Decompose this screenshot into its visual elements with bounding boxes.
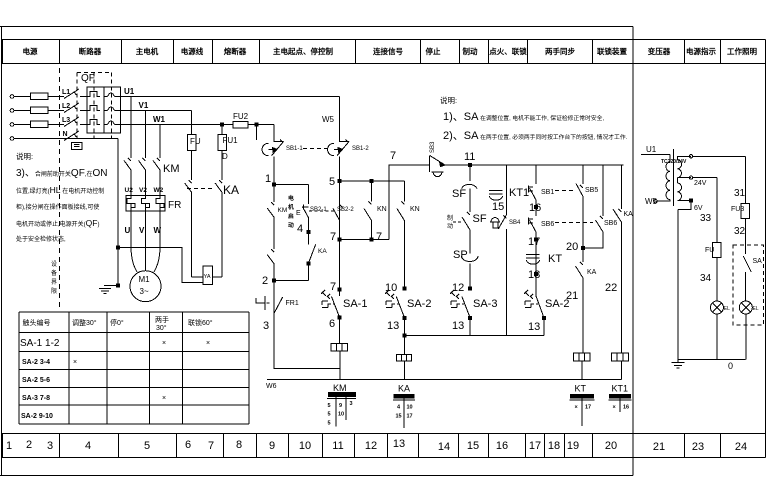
svg-text:断路器: 断路器 — [79, 46, 102, 56]
interlock contact SB2-2 — [333, 205, 343, 221]
svg-text:8: 8 — [236, 439, 242, 451]
transformer secondary top — [678, 156, 692, 177]
svg-text:2: 2 — [262, 275, 268, 287]
svg-text:SA-2: SA-2 — [407, 298, 431, 310]
wire FU to KA contact — [191, 150, 193, 180]
wire FU2 to junction — [248, 124, 274, 126]
wire branch drop — [469, 165, 471, 181]
svg-text:W5: W5 — [322, 115, 335, 124]
lamp HL1 indicator — [739, 301, 752, 314]
breaker QF magnetic element L2 — [108, 107, 121, 111]
emergency button SB1-1 mushroom — [262, 143, 276, 155]
node 7 line — [340, 239, 389, 241]
svg-text:10: 10 — [338, 412, 344, 418]
labels power section — [62, 73, 181, 296]
terminal L1 — [10, 95, 14, 99]
svg-text:L1: L1 — [62, 89, 70, 96]
svg-text:11: 11 — [464, 151, 475, 163]
node 5 junction — [338, 179, 341, 182]
svg-text:停0°: 停0° — [110, 318, 124, 327]
svg-text:SB1-1: SB1-1 — [286, 146, 303, 152]
svg-text:12: 12 — [365, 440, 377, 452]
bus W6 — [267, 379, 621, 381]
contact KM aux (self hold) — [267, 202, 274, 249]
svg-text:U: U — [125, 226, 131, 235]
svg-text:KA: KA — [398, 384, 410, 394]
dashed link SB1-SB5 — [555, 190, 576, 192]
svg-text:KA: KA — [223, 183, 239, 197]
svg-text:×: × — [162, 340, 166, 347]
svg-text:M1: M1 — [139, 275, 151, 284]
svg-text:12: 12 — [452, 282, 464, 294]
svg-text:V: V — [139, 226, 145, 235]
svg-text:处于安全检修状态,: 处于安全检修状态, — [16, 235, 66, 243]
wire node13 to KA coil — [403, 318, 405, 354]
border frame right (main) — [632, 27, 634, 476]
fuse FU (lamp) — [713, 243, 721, 258]
svg-text:主电起点、停控制: 主电起点、停控制 — [273, 46, 333, 56]
breaker QF blade L1 — [64, 89, 87, 99]
svg-text:W: W — [154, 226, 162, 235]
svg-text:SB6: SB6 — [604, 220, 617, 227]
svg-text:3~: 3~ — [140, 287, 149, 296]
svg-text:FU: FU — [705, 247, 714, 254]
svg-text:SA-1 1-2: SA-1 1-2 — [20, 338, 60, 349]
emergency button SB1-1 blade — [272, 140, 284, 156]
0 rail — [678, 358, 745, 360]
wire down to SB1-1 — [274, 125, 283, 142]
svg-text:18: 18 — [528, 269, 540, 281]
wire U1 down to W5 node — [340, 97, 349, 142]
svg-text:KT1: KT1 — [612, 384, 629, 394]
wire L2 — [14, 110, 64, 112]
thermal overload FR box — [126, 196, 165, 212]
wire L3 — [14, 124, 64, 126]
svg-text:W1: W1 — [153, 115, 166, 124]
svg-text:电源线: 电源线 — [181, 46, 204, 56]
node 7b junction — [338, 288, 341, 291]
svg-text:23: 23 — [692, 441, 704, 453]
svg-text:5: 5 — [144, 440, 150, 452]
svg-text:SB1-2: SB1-2 — [352, 146, 369, 152]
svg-text:10: 10 — [385, 282, 397, 294]
svg-text:19: 19 — [567, 440, 579, 452]
svg-text:15: 15 — [467, 440, 479, 452]
svg-text:SA-1: SA-1 — [343, 298, 367, 310]
svg-text:14: 14 — [438, 441, 450, 453]
svg-text:SB3: SB3 — [430, 141, 436, 153]
svg-text:动: 动 — [447, 223, 453, 230]
labels SA-2 — [385, 282, 431, 332]
svg-text:D: D — [222, 152, 228, 161]
button SB5 — [576, 184, 583, 249]
svg-text:4: 4 — [85, 440, 91, 452]
contact table labels — [333, 383, 628, 394]
svg-text:主电机: 主电机 — [136, 46, 159, 56]
svg-text:1: 1 — [265, 173, 271, 185]
svg-text:11: 11 — [332, 440, 343, 452]
pressure switch SP — [462, 252, 479, 288]
contact KN left — [364, 181, 372, 240]
svg-text:FU3: FU3 — [731, 206, 744, 213]
junction PE — [117, 246, 120, 249]
svg-text:启: 启 — [288, 212, 294, 220]
node 13 junction — [403, 317, 406, 320]
svg-text:W2: W2 — [154, 187, 164, 194]
svg-text:YA: YA — [204, 274, 211, 280]
svg-text:5: 5 — [329, 176, 335, 188]
svg-text:SA-3: SA-3 — [473, 298, 497, 310]
KA contact table — [393, 394, 415, 428]
wire lamp to 0 rail — [745, 314, 747, 359]
labels right branches — [566, 187, 633, 294]
thermal contact FR1 — [256, 296, 283, 314]
wire node7 up to top wire — [388, 165, 390, 240]
svg-text:V1: V1 — [139, 101, 149, 110]
wire KA coil to bus — [403, 361, 405, 380]
svg-text:U1: U1 — [646, 145, 657, 154]
flow switch SF contact — [462, 184, 478, 212]
svg-text:连接信号: 连接信号 — [373, 46, 403, 56]
svg-text:N: N — [63, 131, 68, 138]
contact KA (brake interlock left) — [185, 180, 192, 277]
breaker QF thermal element L2 — [87, 106, 108, 111]
svg-text:KM: KM — [278, 207, 288, 214]
contact table tiny numbers — [328, 401, 630, 427]
svg-text:设: 设 — [51, 260, 57, 268]
svg-text:10: 10 — [407, 405, 413, 411]
bottom number row main grid — [2, 434, 633, 458]
svg-text:调整30°: 调整30° — [72, 318, 97, 327]
svg-text:SF: SF — [473, 213, 487, 225]
wire 24V to lamp branch — [693, 178, 717, 243]
svg-text:EL: EL — [724, 306, 730, 312]
border frame top line — [0, 26, 633, 28]
transformer TC core — [673, 149, 675, 206]
labels control feed — [233, 112, 335, 124]
fuse FU3 — [741, 204, 749, 219]
switch SA (panel) — [743, 252, 751, 272]
svg-text:KA: KA — [624, 211, 634, 218]
wire node 13b down to 13 line — [543, 318, 545, 336]
PE wire N down — [104, 139, 118, 286]
aux box below QF — [72, 143, 83, 150]
svg-text:17: 17 — [585, 405, 591, 411]
dashed link KA pair — [187, 188, 214, 190]
junction dot — [255, 123, 258, 126]
junction on node5 line — [370, 179, 373, 182]
node 18 — [535, 273, 538, 276]
svg-text:17: 17 — [407, 414, 413, 420]
svg-text:16: 16 — [623, 405, 629, 411]
wire U1 line — [120, 96, 339, 98]
svg-text:电源: 电源 — [23, 46, 38, 56]
svg-text:10: 10 — [299, 440, 311, 452]
wire KT coil to bus — [581, 361, 583, 380]
border frame left — [1, 27, 3, 476]
wire to node 2 — [274, 280, 308, 282]
svg-text:KT1: KT1 — [509, 187, 529, 199]
node 13b junction — [543, 316, 546, 319]
node 11 junction — [469, 164, 472, 167]
KT contact table — [570, 394, 595, 426]
svg-text:16: 16 — [529, 202, 541, 214]
breaker QF thermal element L3 — [87, 120, 108, 125]
svg-text:0: 0 — [728, 361, 733, 371]
svg-text:5: 5 — [328, 412, 331, 418]
terminal 220 top — [689, 155, 692, 158]
svg-text:KA: KA — [318, 248, 327, 255]
svg-text:13: 13 — [387, 320, 399, 332]
svg-text:×: × — [575, 405, 578, 411]
FR heater element 2 — [142, 196, 150, 212]
border frame right section — [765, 40, 767, 458]
svg-text:FR: FR — [168, 200, 181, 211]
dashed enclosure — [733, 245, 763, 325]
svg-text:FU: FU — [190, 137, 201, 146]
svg-text:6: 6 — [329, 318, 335, 330]
svg-text:6: 6 — [185, 439, 191, 451]
node 1 junction — [273, 183, 276, 186]
svg-text:13: 13 — [452, 320, 464, 332]
svg-text:电源指示: 电源指示 — [686, 46, 716, 56]
wire SB6b branch drop — [602, 165, 604, 216]
svg-text:1: 1 — [6, 440, 12, 452]
terminal L2 — [10, 109, 14, 113]
breaker QF blade L3 — [64, 117, 87, 127]
svg-text:变压器: 变压器 — [648, 46, 671, 56]
wire N — [14, 138, 118, 140]
contact KN right — [397, 181, 405, 289]
wire FU to lamp — [716, 257, 718, 300]
wire FR1 down and across to KM coil branch — [274, 314, 340, 368]
svg-text:SB1: SB1 — [541, 189, 554, 196]
contact KA on SB2 branch — [308, 232, 315, 281]
ground symbol — [99, 289, 111, 294]
terminal W5 — [654, 200, 657, 203]
wire SB1-1 to node 1 — [273, 157, 275, 203]
border frame bottom line — [0, 475, 633, 477]
svg-text:5: 5 — [328, 403, 331, 409]
svg-text:24V: 24V — [694, 180, 707, 187]
svg-text:制: 制 — [447, 214, 453, 222]
svg-text:W6: W6 — [266, 383, 277, 390]
svg-text:两手同步: 两手同步 — [545, 46, 575, 56]
node 6 junction — [338, 316, 341, 319]
svg-text:SA: SA — [753, 258, 763, 265]
labels SA-1 — [329, 298, 367, 330]
svg-text:13: 13 — [393, 438, 405, 450]
bell button SB4 — [490, 215, 506, 335]
breaker QF dashed enclosure — [77, 73, 111, 139]
wire KM coil to bus — [339, 351, 341, 379]
svg-text:20: 20 — [605, 440, 617, 452]
svg-text:SA-2 5-6: SA-2 5-6 — [22, 377, 50, 384]
svg-text:熔断器: 熔断器 — [224, 46, 247, 56]
svg-text:SA-2 9-10: SA-2 9-10 — [21, 413, 53, 420]
svg-text:说明:: 说明: — [16, 151, 33, 161]
header row main grid — [2, 40, 633, 64]
svg-text:24: 24 — [735, 441, 747, 453]
svg-text:SB6: SB6 — [541, 221, 554, 228]
selector switch SA-3 — [450, 290, 459, 308]
svg-text:FU1: FU1 — [223, 136, 239, 145]
svg-text:7: 7 — [330, 231, 336, 243]
svg-text:QF: QF — [81, 73, 95, 84]
svg-text:柜),接分闸在操作面板接线,可使: 柜),接分闸在操作面板接线,可使 — [16, 203, 99, 211]
PE branch to YA — [118, 248, 203, 283]
node 10 junction — [403, 287, 406, 290]
svg-text:×: × — [613, 405, 616, 411]
svg-text:V2: V2 — [139, 187, 147, 194]
svg-text:×: × — [206, 340, 210, 347]
contact SF2 — [462, 212, 470, 252]
wire KA/22 branch drop — [620, 165, 622, 209]
labels control left — [262, 146, 369, 332]
svg-text:KM: KM — [163, 163, 180, 175]
bottom number row right section grid — [633, 434, 766, 458]
breaker QF magnetic element L3 — [108, 121, 121, 125]
contact KA mid — [576, 248, 584, 353]
contactor KM main contact 2 — [139, 158, 146, 196]
svg-text:15: 15 — [492, 201, 504, 213]
svg-text:6V: 6V — [694, 205, 703, 212]
bottom row numbers — [6, 438, 747, 453]
svg-text:KT: KT — [548, 253, 562, 265]
button SB6b — [583, 216, 603, 248]
breaker QF blade L2 — [64, 103, 87, 113]
labels top wire — [390, 141, 475, 163]
svg-text:W5: W5 — [645, 197, 658, 206]
node 17 — [535, 238, 538, 241]
svg-text:U1: U1 — [124, 87, 135, 96]
breaker QF trip unit divider — [103, 87, 105, 133]
labels right section — [645, 145, 762, 371]
button SB6 — [529, 218, 537, 251]
wire 13 line — [404, 334, 544, 336]
wire to YA right — [212, 276, 222, 278]
wire to 13 line — [469, 318, 471, 335]
wire SB1-2 to node 5 — [339, 157, 341, 297]
emergency button SB1-2 mushroom — [328, 143, 342, 155]
svg-text:7: 7 — [208, 440, 214, 452]
vertical text 设备界限 — [51, 260, 57, 295]
contactor KM main contact 3 — [153, 158, 160, 196]
svg-text:TC220/24V: TC220/24V — [661, 159, 687, 165]
fuse L2 — [31, 107, 49, 114]
svg-text:SB5: SB5 — [585, 187, 598, 194]
breaker QF trip unit box — [87, 87, 121, 133]
node dot below KA — [307, 262, 310, 265]
terminal N — [10, 137, 14, 141]
wire U1 drop to KM — [130, 97, 132, 159]
wire lamp to 0 rail — [716, 314, 718, 359]
fuse L1 — [31, 93, 49, 100]
fuse FU1 — [218, 134, 226, 150]
svg-text:SA-2 3-4: SA-2 3-4 — [22, 359, 50, 366]
svg-text:18: 18 — [548, 440, 560, 452]
wire W1 down to FU1 — [221, 125, 223, 135]
labels 16/17/18 — [528, 189, 578, 333]
svg-text:30°: 30° — [156, 324, 167, 332]
breaker QF blade N — [64, 131, 79, 141]
node 7 junction left — [338, 238, 341, 241]
svg-text:9: 9 — [339, 403, 342, 409]
svg-text:20: 20 — [566, 241, 578, 253]
svg-text:17: 17 — [529, 440, 541, 452]
labels node 5/7 — [329, 176, 420, 293]
svg-text:33: 33 — [700, 213, 712, 224]
svg-text:16: 16 — [496, 440, 508, 452]
node 7 junction mid — [370, 238, 373, 241]
wire FU1 to KA contact right — [221, 150, 223, 180]
wire branch drop — [582, 165, 584, 184]
svg-text:动: 动 — [288, 221, 294, 229]
ground right section — [672, 359, 685, 368]
svg-text:21: 21 — [653, 441, 665, 453]
fuse FU — [188, 134, 196, 150]
svg-text:SP: SP — [453, 249, 468, 261]
labels SF branch — [447, 188, 497, 332]
svg-text:限: 限 — [51, 287, 57, 295]
svg-text:EL: EL — [753, 306, 759, 312]
junction W1/FU1 — [221, 123, 224, 126]
dashed link SB2-1 SB2-2 — [309, 210, 334, 212]
node 4 junction — [307, 231, 310, 234]
header labels — [23, 46, 758, 56]
wire node1 to SB2 branch — [274, 184, 308, 204]
timed contact KT — [526, 250, 540, 289]
contact KA (brake interlock right) — [215, 180, 222, 277]
node 12 junction — [469, 287, 472, 290]
wire 11 segment — [445, 164, 623, 166]
svg-text:2: 2 — [26, 439, 32, 451]
svg-text:15: 15 — [396, 414, 402, 420]
svg-text:制动: 制动 — [463, 46, 478, 56]
labels KT1 branch — [492, 187, 529, 226]
svg-text:×: × — [162, 395, 166, 402]
FR heater element 3 — [156, 196, 164, 212]
svg-text:KN: KN — [377, 206, 387, 213]
svg-text:5: 5 — [328, 421, 331, 427]
svg-text:22: 22 — [605, 282, 617, 294]
svg-text:13: 13 — [528, 321, 540, 333]
svg-text:L3: L3 — [62, 117, 70, 124]
wire V1 line — [120, 110, 191, 112]
junction PE lower — [117, 284, 120, 287]
FR heater element 1 — [127, 196, 135, 212]
svg-text:KA: KA — [587, 269, 597, 276]
breaker QF thermal element L1 — [87, 92, 108, 97]
svg-text:FR1: FR1 — [286, 300, 299, 307]
coil KA — [397, 354, 412, 361]
dashed link SB1-1 to SB1-2 — [303, 148, 331, 150]
svg-text:7: 7 — [330, 281, 336, 293]
node 5 line — [340, 180, 405, 182]
labels brake circuit — [190, 136, 239, 280]
node 13c junction — [469, 317, 472, 320]
svg-text:3: 3 — [263, 320, 269, 332]
svg-text:U2: U2 — [125, 187, 134, 194]
transformer primary winding — [657, 154, 670, 201]
KT1 contact table — [609, 394, 632, 412]
svg-text:3: 3 — [350, 401, 353, 407]
svg-text:工作照明: 工作照明 — [727, 46, 757, 56]
svg-text:L2: L2 — [62, 103, 70, 110]
coil KM — [331, 344, 348, 352]
wire to YA left — [192, 276, 203, 278]
node 16 — [535, 206, 538, 209]
